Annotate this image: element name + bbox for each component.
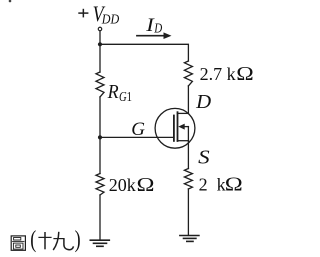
svg-text:D: D: [154, 21, 163, 36]
svg-text:S: S: [198, 147, 210, 168]
svg-text:Ω: Ω: [225, 173, 243, 195]
svg-text:DD: DD: [101, 13, 119, 28]
svg-text:): ): [75, 227, 81, 253]
svg-text:(: (: [30, 227, 36, 253]
svg-text:R: R: [107, 82, 119, 103]
svg-text:2: 2: [199, 174, 208, 194]
svg-text:G: G: [131, 119, 145, 140]
svg-text:20k: 20k: [109, 175, 136, 195]
svg-text:Ω: Ω: [137, 174, 155, 196]
svg-text:G1: G1: [119, 90, 132, 105]
svg-text:2.7 k: 2.7 k: [200, 64, 236, 84]
svg-text:D: D: [195, 92, 211, 113]
svg-text:Ω: Ω: [236, 63, 253, 85]
